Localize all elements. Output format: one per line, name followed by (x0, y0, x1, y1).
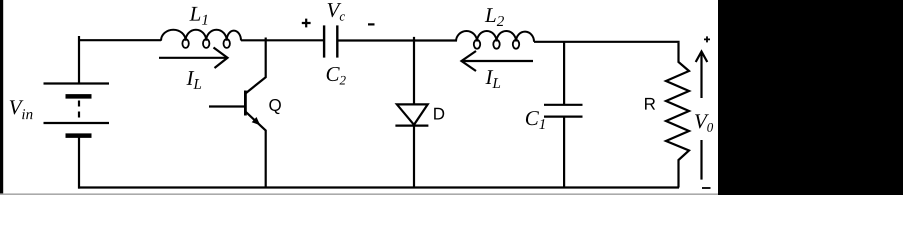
svg-text:Q: Q (268, 96, 281, 115)
svg-text:IL: IL (186, 66, 202, 93)
svg-text:V0: V0 (694, 109, 714, 135)
svg-text:IL: IL (485, 65, 501, 92)
svg-text:L1: L1 (189, 2, 209, 29)
svg-text:Vin: Vin (9, 95, 34, 123)
svg-text:R: R (644, 95, 656, 114)
svg-text:L2: L2 (484, 3, 505, 30)
svg-text:C1: C1 (525, 106, 547, 133)
svg-text:Vc: Vc (327, 0, 346, 23)
svg-text:D: D (433, 104, 445, 123)
svg-text:C2: C2 (326, 62, 347, 88)
